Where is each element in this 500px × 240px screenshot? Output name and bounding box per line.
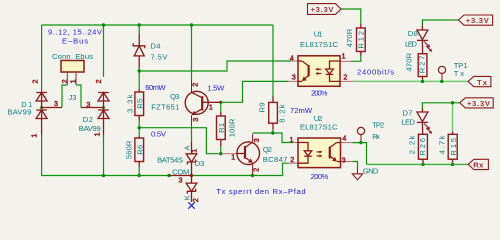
wire top bus xyxy=(42,24,273,26)
svg-text:+3.3V: +3.3V xyxy=(311,5,335,14)
node dot TP2 Rx xyxy=(359,141,362,144)
pin U2 pin2 stub xyxy=(289,162,299,164)
wire riser to U2 pin2 xyxy=(283,163,289,175)
svg-text:1: 1 xyxy=(209,103,213,112)
pin U1 pin1 stub xyxy=(340,60,351,62)
wire U2 pin4 to Rx corner xyxy=(352,143,366,165)
wire R12 bottom to U1 pin1 xyxy=(351,56,361,62)
wire R27 bottom xyxy=(422,80,424,82)
svg-text:60mW: 60mW xyxy=(145,83,166,92)
diode D4 zener 7.5V xyxy=(133,34,145,68)
svg-text:EL817S1C: EL817S1C xyxy=(300,123,338,132)
wire D4 bottom to node xyxy=(138,68,140,72)
svg-text:2.2k: 2.2k xyxy=(407,135,416,154)
svg-text:72mW: 72mW xyxy=(290,106,313,115)
node dot bus D2 xyxy=(102,174,105,177)
svg-text:Conn_Ebus: Conn_Ebus xyxy=(52,52,93,61)
pin Q3 collector stub xyxy=(191,80,193,92)
node dot R27 Tx xyxy=(421,80,424,83)
wire U2 pin3 to GND xyxy=(352,162,357,169)
pin U1 pin4 stub xyxy=(291,60,298,62)
pin Q2 emitter stub xyxy=(252,163,254,174)
wire D4 top stub xyxy=(138,25,140,34)
wire D2 rail bottom xyxy=(103,135,105,176)
svg-text:1: 1 xyxy=(190,149,199,153)
svg-text:1: 1 xyxy=(231,152,235,161)
svg-text:100R: 100R xyxy=(228,118,237,137)
wire R1 top xyxy=(220,102,222,112)
svg-text:Tx sperrt den Rx–Pfad: Tx sperrt den Rx–Pfad xyxy=(216,187,305,196)
pin TP1 stub xyxy=(441,74,443,80)
node dot bus Q2 emitter xyxy=(251,174,254,177)
svg-text:560R: 560R xyxy=(125,140,134,159)
svg-text:R26: R26 xyxy=(418,138,427,156)
wire R6 bottom xyxy=(138,167,140,176)
wire 0.5V node to Q2 base xyxy=(139,128,221,154)
svg-text:+3.3V: +3.3V xyxy=(467,99,491,108)
svg-text:D7: D7 xyxy=(403,109,413,118)
svg-text:4: 4 xyxy=(342,134,346,143)
svg-text:4: 4 xyxy=(290,53,294,62)
node dot D1 mid xyxy=(40,106,43,109)
wire Q3 collector rail xyxy=(191,25,193,80)
resistor R15 4.7k xyxy=(448,132,457,163)
pin U2 pin3 stub xyxy=(341,161,353,163)
svg-text:R27: R27 xyxy=(417,56,426,74)
svg-text:Tx: Tx xyxy=(477,78,488,87)
ground symbol GND xyxy=(352,168,362,180)
svg-text:2: 2 xyxy=(343,72,347,81)
svg-text:1: 1 xyxy=(69,79,78,83)
pin Q3 emitter stub xyxy=(191,115,193,125)
pin U2 pin1 stub xyxy=(293,142,298,144)
node dot R15 Rx xyxy=(451,163,454,166)
svg-text:200%: 200% xyxy=(311,172,329,181)
no-connect X on D3 pin2 xyxy=(188,202,194,208)
node dot bus R6 xyxy=(138,174,141,177)
wire Rx bottom to Rx flag xyxy=(367,163,469,165)
svg-text:U2: U2 xyxy=(314,114,323,123)
svg-text:R1: R1 xyxy=(217,123,226,133)
svg-text:2: 2 xyxy=(31,80,40,84)
svg-text:2: 2 xyxy=(60,79,69,83)
resistor R6 560R xyxy=(135,136,144,167)
svg-text:LED: LED xyxy=(405,40,418,49)
diode D7 LED xyxy=(417,109,432,135)
pin Q2 base stub xyxy=(222,153,237,155)
svg-text:1: 1 xyxy=(342,52,346,61)
power flag +3.3V no3 xyxy=(460,98,494,108)
wire 3.3V no1 to R12 xyxy=(341,9,361,24)
flag Rx output xyxy=(468,159,488,169)
svg-text:2: 2 xyxy=(191,83,200,87)
node dot D2 top xyxy=(102,23,105,26)
wire bottom bus right xyxy=(192,175,283,177)
svg-text:R15: R15 xyxy=(449,138,458,156)
node dot D4 top xyxy=(138,23,141,26)
svg-text:Rx: Rx xyxy=(372,132,380,141)
pin TP2 stub xyxy=(360,135,362,141)
resistor R27 470R xyxy=(418,45,427,80)
node dot 0.5V xyxy=(138,126,141,129)
svg-text:Q3: Q3 xyxy=(170,92,179,101)
testpoint TP2 xyxy=(357,127,364,134)
svg-text:Rx: Rx xyxy=(473,161,484,170)
svg-text:R5: R5 xyxy=(136,99,145,109)
optocoupler U2 EL817S1C xyxy=(298,138,341,168)
wire J3 pin1 to D2 mid xyxy=(76,85,81,108)
node dot bus COM xyxy=(167,174,170,177)
diode D2 BAV99 dual xyxy=(81,93,109,136)
svg-text:BAV99: BAV99 xyxy=(8,108,32,117)
node dot Q3 base xyxy=(219,101,222,104)
svg-text:1: 1 xyxy=(93,132,102,136)
svg-text:2: 2 xyxy=(290,155,294,164)
resistor R12 470R xyxy=(357,24,366,56)
svg-text:R12: R12 xyxy=(356,31,365,49)
wire left rail top xyxy=(41,25,43,89)
node dot R26 Rx xyxy=(421,163,424,166)
svg-text:BAV99: BAV99 xyxy=(79,124,101,133)
wire R9 bottom node xyxy=(272,130,274,134)
svg-text:2: 2 xyxy=(252,168,261,172)
wire R9 rail top xyxy=(272,25,274,96)
svg-text:7.5V: 7.5V xyxy=(151,53,169,62)
svg-text:BC847: BC847 xyxy=(263,155,288,164)
svg-text:1: 1 xyxy=(30,134,39,138)
svg-text:1.5W: 1.5W xyxy=(207,84,225,93)
svg-text:GND: GND xyxy=(363,167,379,176)
wire Q2 collector node xyxy=(253,133,294,143)
svg-text:FZT651: FZT651 xyxy=(151,103,179,112)
svg-text:J3: J3 xyxy=(69,93,77,102)
wire R5 to R6 node xyxy=(138,121,140,137)
wire J3 pin2 to D1 mid xyxy=(62,85,67,108)
pin U2 pin4 stub xyxy=(341,142,353,144)
svg-text:3: 3 xyxy=(292,73,296,82)
diode D3 BAT54S dual schottky xyxy=(186,142,197,202)
svg-text:470R: 470R xyxy=(345,28,354,47)
testpoint TP1 xyxy=(438,66,445,73)
svg-text:4.7k: 4.7k xyxy=(437,135,446,154)
power flag +3.3V no2 xyxy=(458,15,492,25)
wire D2 rail top xyxy=(103,25,105,77)
transistor Q3 FZT651 xyxy=(185,91,221,115)
svg-text:E–Bus: E–Bus xyxy=(62,36,88,45)
svg-text:K: K xyxy=(182,195,191,200)
wire U1 pin3 to Q3 base node xyxy=(221,81,288,102)
svg-text:3: 3 xyxy=(342,155,346,164)
node dot R9 bottom xyxy=(271,131,274,134)
svg-text:2400bit/s: 2400bit/s xyxy=(357,68,394,77)
pin D1 top stub xyxy=(41,89,43,93)
wire A from D4 node to U1 pin4 xyxy=(139,61,291,71)
wire R15 top vertical xyxy=(452,103,454,132)
svg-text:200%: 200% xyxy=(311,89,328,98)
optocoupler U1 EL817S1C xyxy=(298,56,340,87)
svg-text:D4: D4 xyxy=(151,42,161,51)
svg-text:Q2: Q2 xyxy=(263,145,272,154)
diode D1 BAV99 dual xyxy=(36,93,62,135)
svg-text:3: 3 xyxy=(252,138,261,142)
svg-text:470R: 470R xyxy=(405,52,414,71)
transistor Q2 BC847 xyxy=(237,142,260,165)
wire Q3 emitter to D3 xyxy=(191,126,193,143)
svg-text:9..12, 15..24V: 9..12, 15..24V xyxy=(48,27,103,36)
svg-text:2: 2 xyxy=(191,198,200,202)
wire R1 bottom xyxy=(220,146,222,154)
node dot bus D3 xyxy=(190,174,193,177)
svg-text:R9: R9 xyxy=(258,102,267,112)
wire R15 bottom xyxy=(452,162,454,164)
svg-text:1: 1 xyxy=(290,135,294,144)
pin Q2 collector stub xyxy=(252,134,254,142)
node dot Q2 base xyxy=(219,152,222,155)
svg-text:EL817S1C: EL817S1C xyxy=(300,40,339,49)
node dot R15 top xyxy=(451,101,454,104)
svg-text:TP2: TP2 xyxy=(372,121,384,130)
power flag +3.3V no1 xyxy=(308,4,342,15)
wire R26 bottom xyxy=(422,163,424,164)
svg-text:3: 3 xyxy=(191,118,200,122)
svg-text:2: 2 xyxy=(94,80,103,84)
svg-text:3: 3 xyxy=(179,176,183,185)
node dot D2 mid xyxy=(102,106,105,109)
svg-text:R6: R6 xyxy=(136,145,145,155)
svg-text:+3.3V: +3.3V xyxy=(466,16,490,25)
node dot TP1 Tx xyxy=(440,80,443,83)
wire TP2 stub xyxy=(360,141,362,143)
node dot D4 R5 xyxy=(138,69,141,72)
connector J3 Conn_Ebus xyxy=(61,61,84,86)
svg-text:0.5V: 0.5V xyxy=(151,129,167,138)
resistor R9 8.2k xyxy=(269,96,278,130)
svg-text:D8: D8 xyxy=(408,29,418,38)
svg-text:LED: LED xyxy=(401,117,415,126)
wire left rail bottom xyxy=(41,135,43,176)
svg-text:D3: D3 xyxy=(195,159,205,168)
pin U1 pin3 stub xyxy=(288,80,298,82)
wire node to R5 xyxy=(138,71,140,89)
resistor R5 3.3k xyxy=(135,89,144,121)
svg-text:3.3k: 3.3k xyxy=(125,94,134,113)
svg-text:3: 3 xyxy=(54,99,58,108)
pin D3 COM stub xyxy=(169,175,192,177)
svg-text:3: 3 xyxy=(86,100,90,109)
wire TP1 stub xyxy=(441,79,443,82)
svg-text:8.2k: 8.2k xyxy=(277,104,286,122)
resistor R1 100R xyxy=(217,112,226,146)
wire 3.3V no2 to D8 xyxy=(422,20,458,26)
pin U1 pin2 stub xyxy=(340,80,353,82)
resistor R26 2.2k xyxy=(418,134,427,163)
svg-text:D2: D2 xyxy=(83,115,93,124)
svg-text:U1: U1 xyxy=(314,30,323,39)
node dot Q3 top xyxy=(190,23,193,26)
diode D8 LED xyxy=(417,26,432,52)
wire 3.3V no3 to D7 xyxy=(422,103,459,109)
flag Tx output xyxy=(468,76,491,86)
wire bottom bus left xyxy=(42,175,169,177)
svg-text:BAT54S: BAT54S xyxy=(157,156,183,165)
wire Tx net U1 pin2 to Tx flag xyxy=(353,80,468,82)
